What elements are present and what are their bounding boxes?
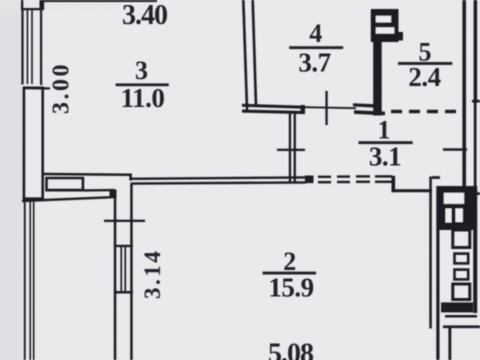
room 5 fraction bar [398,62,452,65]
step in room 3 bottom wall [129,174,132,181]
room 4 fraction bar [289,46,343,49]
ventilation shaft block top [371,9,399,42]
room 1 fraction bar [358,141,412,144]
room 3 bottom wall left line [43,173,131,176]
top-left corner post [40,0,45,10]
tick for dim 3.00 [33,87,50,89]
window W1 outer line [21,10,23,85]
room 4 bottom wall lower-left line [242,110,305,115]
room 4 wall end cap [301,105,305,114]
duct box 4 [453,284,470,300]
room 5 dashed bottom wall [391,110,402,113]
column foot junction [110,190,117,198]
window W1 pane line 2 [31,10,33,84]
right wall V1 [462,0,466,186]
paper shading left [0,0,22,360]
column window top divider [114,245,133,247]
balcony top line L2 [22,196,115,202]
left wall top stub outer edge [21,0,23,10]
balcony glazing line 2 [29,201,31,360]
room 4 bottom wall upper-left line [242,104,301,109]
column window bottom divider [114,291,133,294]
wall pier under room 3 [45,177,84,192]
dashed opening top row [318,176,331,178]
nook wall right line [294,111,296,182]
window sill top-left [21,8,42,10]
dashed opening bottom row [318,181,331,183]
corridor bottom wall right portion [394,189,432,192]
paper shading top-left [0,0,120,10]
room 4 bottom wall upper-right line [353,103,378,108]
duct column slot B [456,209,463,223]
window W1 inner line [40,9,42,85]
shaft column top black section [439,186,477,230]
balcony top line L1 [84,189,115,192]
wall between rooms 3 and 4 right line [251,0,257,106]
bottom-right vertical wall [448,328,451,360]
right wall connector [472,100,480,103]
room2 right wall line A [429,177,432,329]
duct column white box [444,193,464,204]
room 2 top wall end cap [305,176,314,184]
duct column slot A [446,209,452,223]
shaft column bottom bar [441,302,473,312]
corridor wall corner drop [392,176,396,193]
room2 window column left line [114,190,117,360]
balcony glazing line 1 [24,201,26,360]
left wall solid block (outlined) [23,87,44,201]
room 3 fraction bar [116,83,169,86]
room2 right wall line B [436,186,439,360]
tick through nook wall [277,149,305,151]
corridor wall stub at A top [432,176,440,179]
room 4 bottom wall lower-right line [354,110,385,115]
column window pane 1 [120,247,122,291]
tick through column [104,220,145,222]
tick through room 4 opening [325,91,327,125]
room 2 top wall lower line [131,181,306,185]
room 2 fraction bar [263,272,317,275]
shaft wall below [373,40,382,116]
room 4 opening threshold line [305,106,356,109]
right edge short line at 194 [472,192,480,195]
duct box 2 [455,254,469,264]
right wall V2 lower [474,102,477,186]
top exterior wall line [43,0,157,2]
shaft column right edge [473,186,477,313]
nook wall left line [289,111,291,182]
shaft square bottom bar extension [396,32,403,41]
window W1 pane line 1 [27,10,29,84]
tick through right wall [443,148,467,151]
column window pane 2 [124,247,126,291]
bottom-right step line [443,325,480,328]
shaft column underline [445,315,477,318]
wall between rooms 3 and 4 left line [242,0,248,112]
balcony glazing line 3 [33,201,35,360]
vent shaft slot 1 [376,16,391,23]
right wall V2 upper [474,0,478,103]
room2 window column right line [130,183,133,360]
duct box 1 [453,230,470,248]
duct box 3 [455,270,469,280]
vent shaft slot 2 [376,27,395,33]
room 2 top wall upper line [131,176,306,180]
